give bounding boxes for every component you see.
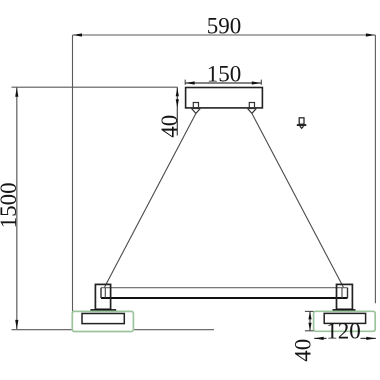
left lamp green housing [72, 311, 133, 331]
left lamp body [82, 314, 124, 324]
left support post [95, 284, 110, 309]
dimension 40 (lamp) extension ticks [305, 311, 314, 330]
right support post [337, 284, 353, 309]
svg-text:120: 120 [326, 319, 361, 344]
ceiling canopy plate [186, 88, 263, 108]
dimension 40 (lamp height) line [309, 311, 311, 330]
left lamp flange [90, 309, 116, 312]
dimension 150 arrows [185, 81, 261, 84]
right suspension hook [248, 103, 257, 114]
dimension 40 (lamp) arrows [308, 311, 311, 330]
right suspension wire [252, 113, 344, 287]
dimension 590 arrows [73, 33, 376, 36]
svg-text:40: 40 [291, 339, 316, 362]
ring bar bottom edge [101, 297, 348, 299]
ring bar left cap [100, 288, 102, 298]
dimension 1500 arrows [15, 87, 18, 329]
ring bar inner divider left [104, 288, 106, 298]
right lamp flange [333, 309, 356, 312]
dimension 120 line stubs [314, 337, 376, 339]
extension line left of 590 [72, 35, 74, 311]
ring bar right cap [347, 288, 349, 298]
right lamp green housing [314, 311, 376, 331]
dimension 120 arrows [314, 337, 376, 340]
dimension 150 line [185, 82, 261, 84]
ring bar top edge [101, 287, 348, 289]
dimension 40 (canopy height) line [176, 87, 178, 135]
left suspension wire [104, 113, 196, 287]
screw icon [297, 118, 307, 129]
ring bar inner divider right [341, 288, 343, 298]
dimension 150 extension ticks [185, 80, 261, 85]
dimension 1500 line [16, 87, 18, 329]
dimension 40 (canopy) arrows [176, 88, 179, 108]
dimension 590 line [73, 34, 376, 36]
extension line top (ceiling level) [12, 86, 178, 88]
extension line right of 590 [374, 35, 376, 303]
svg-text:590: 590 [207, 13, 242, 38]
extension line bottom (lamp bottom level) [12, 329, 215, 331]
svg-text:40: 40 [157, 115, 182, 138]
right lamp body [324, 313, 365, 323]
left suspension hook [192, 103, 201, 114]
svg-text:1500: 1500 [0, 182, 21, 228]
svg-text:150: 150 [207, 62, 242, 87]
